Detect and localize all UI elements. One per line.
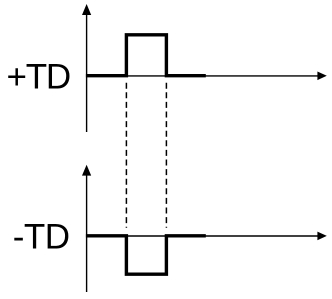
svg-text:+TD: +TD (7, 58, 71, 97)
svg-text:-TD: -TD (13, 218, 70, 257)
